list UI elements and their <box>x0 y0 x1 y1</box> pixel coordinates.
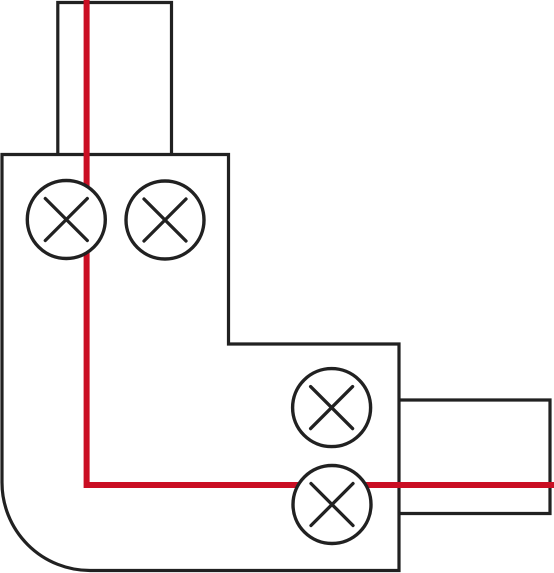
screw terminal S1 <box>27 181 105 259</box>
screw terminal S3 <box>293 369 371 447</box>
screw terminal S2 <box>126 181 204 259</box>
wire (red conductor path) <box>87 0 554 485</box>
right tab (track stub) <box>399 400 550 514</box>
connector body (L-shaped housing) <box>2 155 399 571</box>
top tab (track stub) <box>58 3 172 155</box>
screw terminal S4 <box>293 466 371 544</box>
